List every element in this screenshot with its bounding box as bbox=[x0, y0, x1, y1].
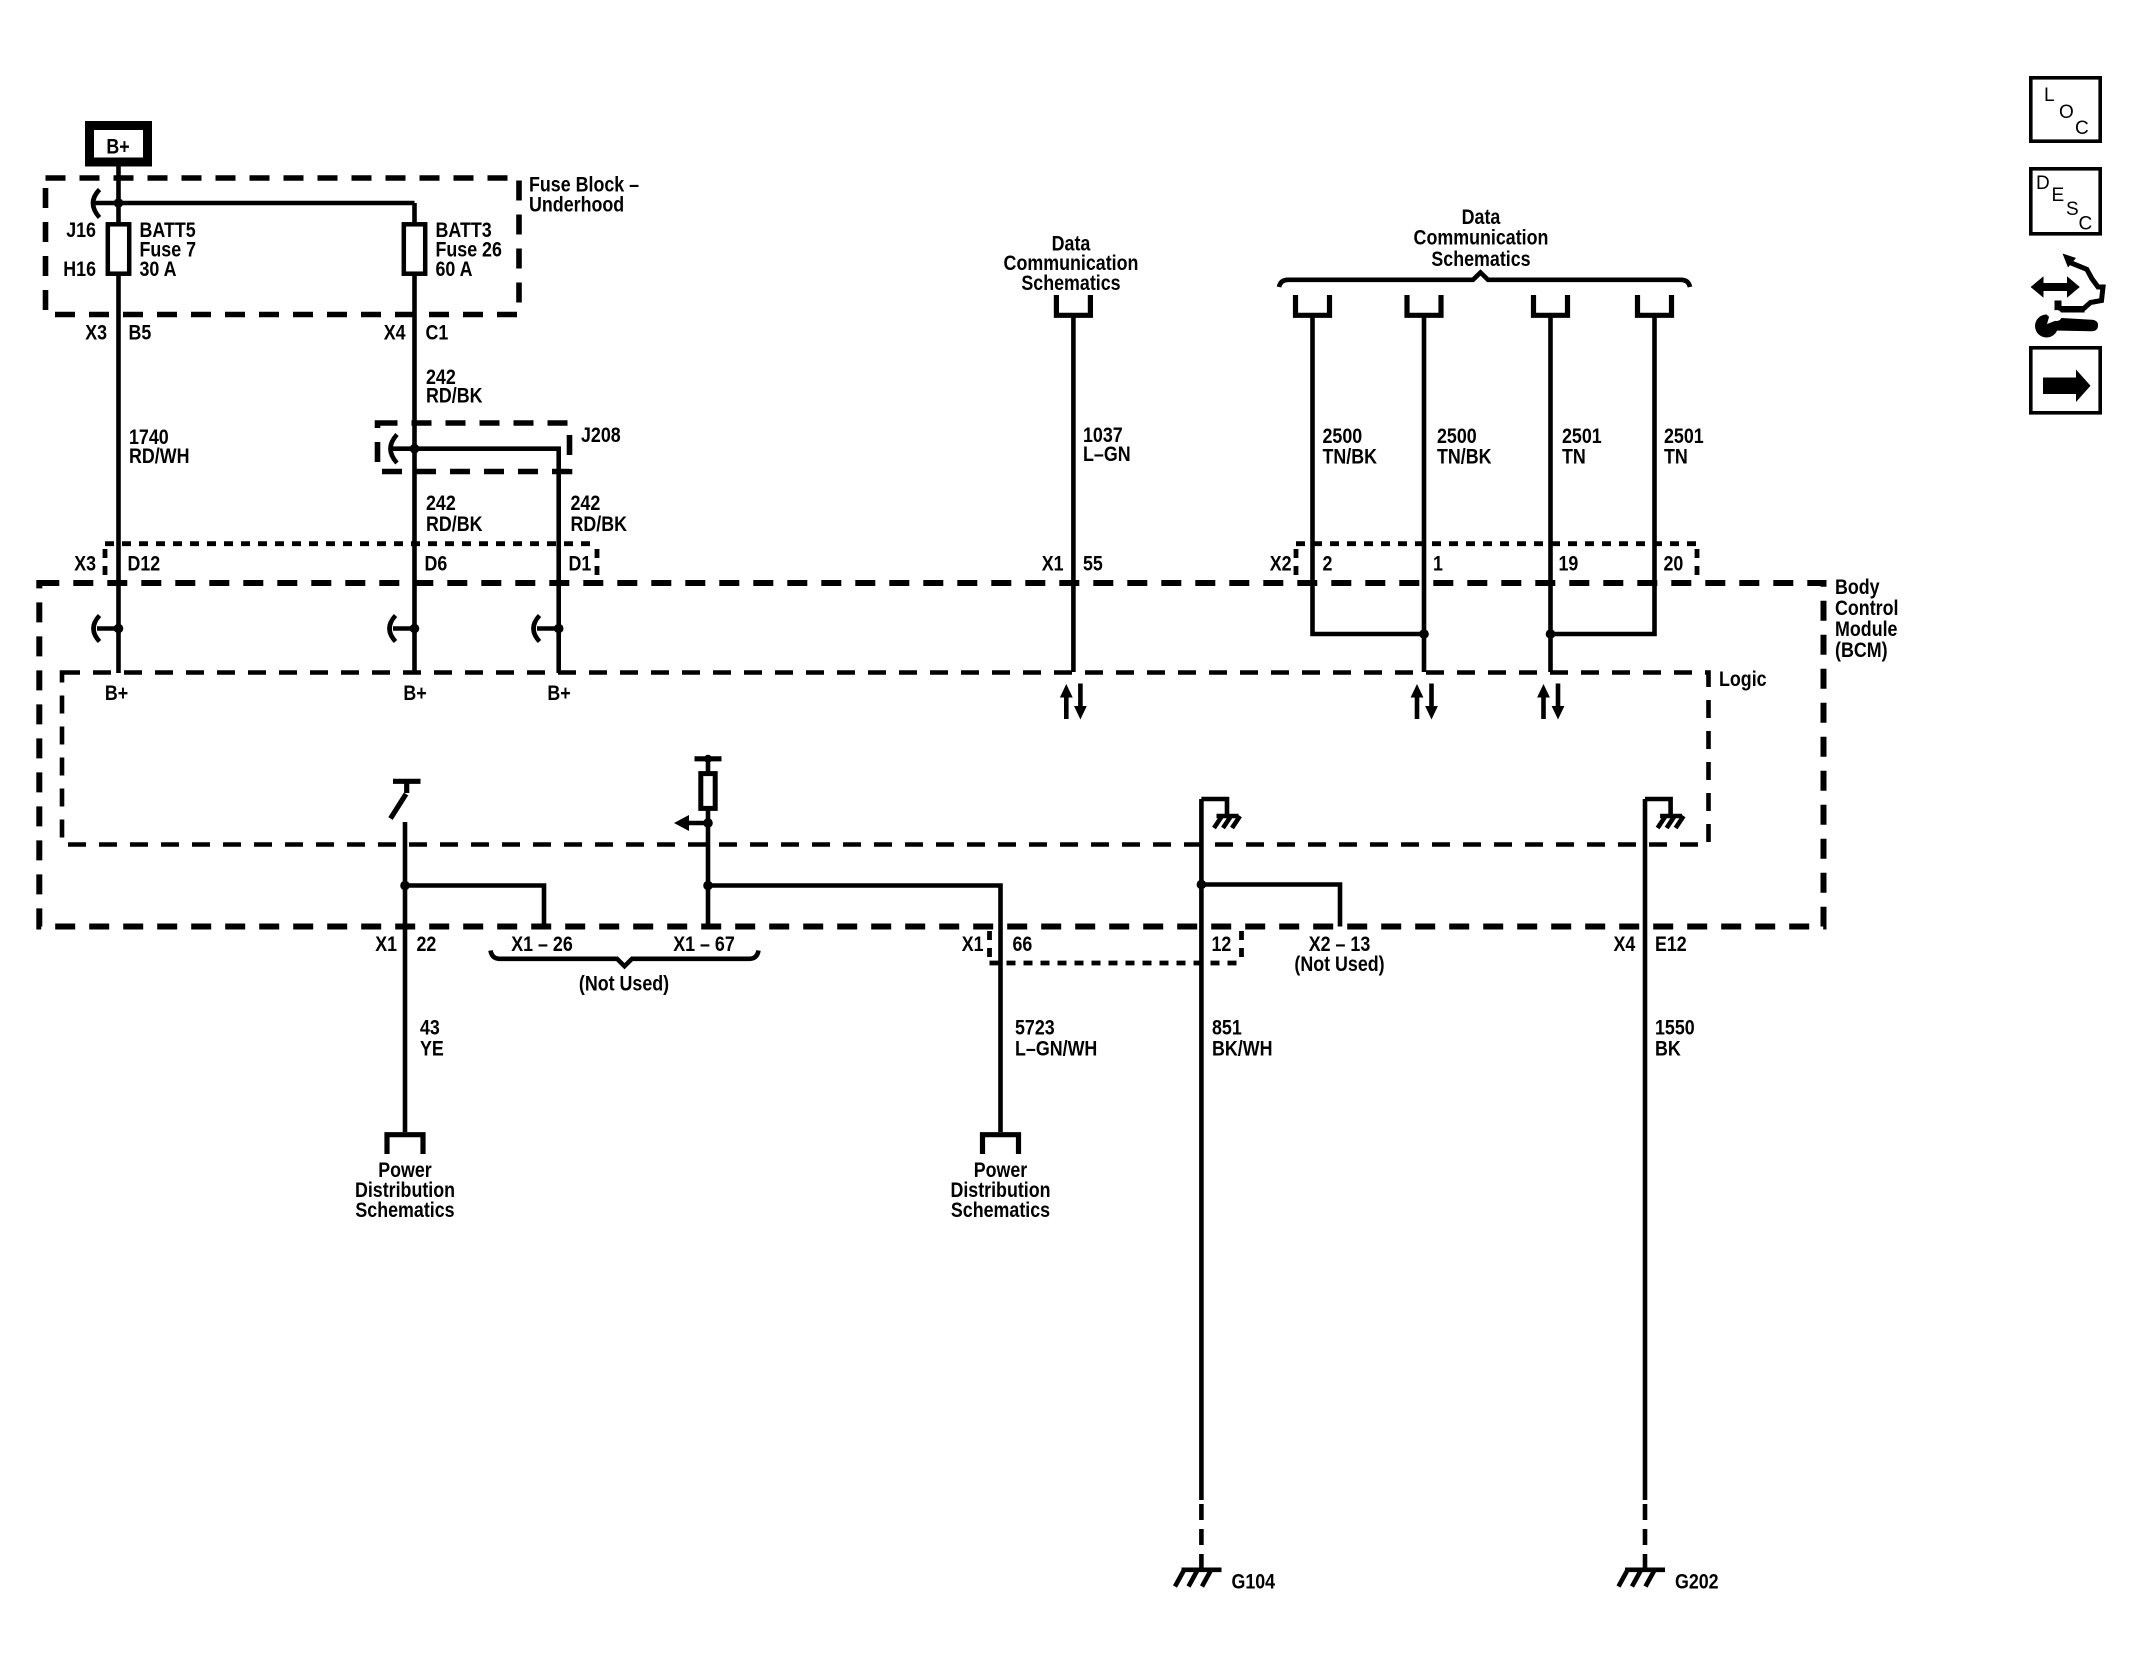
svg-text:B+: B+ bbox=[105, 682, 128, 705]
svg-text:(Not Used): (Not Used) bbox=[1294, 953, 1384, 976]
svg-text:X4: X4 bbox=[384, 322, 406, 345]
svg-text:BK/WH: BK/WH bbox=[1212, 1038, 1273, 1061]
internal switch contact bbox=[391, 781, 421, 818]
fuse BATT3 value label bbox=[436, 219, 502, 281]
svg-text:G202: G202 bbox=[1675, 1571, 1719, 1594]
svg-text:B5: B5 bbox=[129, 322, 152, 345]
svg-text:TN/BK: TN/BK bbox=[1437, 446, 1492, 469]
svg-text:C: C bbox=[2075, 118, 2089, 139]
pin label X3 connector bbox=[85, 322, 107, 345]
connector symbol at data bus wire top bbox=[1534, 295, 1568, 315]
pin label E12 bbox=[1655, 933, 1687, 956]
connector grommet J16 bbox=[93, 190, 100, 218]
svg-text:B+: B+ bbox=[106, 136, 129, 159]
sidebar icon arrow box bbox=[2031, 348, 2100, 413]
splice label J208 bbox=[581, 424, 621, 447]
connector grommet B+ entry bbox=[94, 616, 124, 642]
resistor pull-up bbox=[701, 774, 715, 809]
Body Control Module BCM dashed box bbox=[39, 583, 1823, 927]
svg-text:22: 22 bbox=[417, 933, 437, 956]
fuse BATT3 Fuse 26 60 A bbox=[404, 224, 425, 273]
sidebar icon LOC bbox=[2031, 78, 2100, 141]
pin label X1 at 66 bbox=[962, 933, 984, 956]
node label B+ first bbox=[105, 682, 128, 705]
wire 2501 TN pin 20 bbox=[1551, 314, 1655, 635]
wire label 1037 L-GN bbox=[1083, 424, 1131, 466]
wire 2500 TN/BK pin 2 bbox=[1313, 314, 1425, 635]
wire 1740 RD/WH from B+ through fuse BATT5 to BCM pin D12 bbox=[116, 166, 121, 673]
wire label 43 YE bbox=[420, 1017, 444, 1061]
junction node ground branch bbox=[1197, 880, 1207, 890]
svg-text:L–GN/WH: L–GN/WH bbox=[1015, 1038, 1097, 1061]
junction node high-speed bus bbox=[1546, 629, 1556, 639]
bidirectional signal arrows at pin 55 bbox=[1060, 684, 1087, 720]
BCM label bbox=[1835, 576, 1899, 662]
fuse block underhood dashed box bbox=[46, 178, 520, 315]
pin label H16 bbox=[63, 258, 96, 281]
connector grommet B+ entry bbox=[390, 616, 420, 642]
junction node resistor branch bbox=[703, 881, 713, 891]
svg-text:X1: X1 bbox=[375, 933, 397, 956]
wire 1550 BK to ground G202 bbox=[1643, 799, 1648, 1500]
internal ground symbol right bbox=[1645, 799, 1684, 828]
wire label 242 RD/BK upper bbox=[426, 366, 483, 408]
junction node switch branch bbox=[400, 881, 410, 891]
fuse BATT5 Fuse 7 30 A bbox=[108, 224, 129, 273]
off-page reference Power Distribution Schematics right bbox=[950, 1159, 1050, 1222]
junction node at J208 bbox=[410, 444, 420, 454]
svg-text:X2: X2 bbox=[1270, 553, 1292, 576]
pin label X1 bbox=[1042, 553, 1064, 576]
wire dashed tail to G202 bbox=[1643, 1504, 1648, 1570]
svg-text:G104: G104 bbox=[1232, 1571, 1276, 1594]
wire label 242 RD/BK right bbox=[571, 492, 628, 536]
svg-text:Logic: Logic bbox=[1719, 668, 1767, 691]
junction node at B+ feed bbox=[114, 198, 124, 208]
svg-text:X1 – 67: X1 – 67 bbox=[673, 933, 735, 956]
wire from switch to pin 22 bbox=[403, 822, 408, 1132]
connector grommet B+ entry bbox=[534, 616, 564, 642]
svg-text:242: 242 bbox=[571, 492, 601, 515]
off-page reference Power Distribution Schematics left bbox=[355, 1159, 455, 1222]
wire 242 RD/BK from fuse BATT3 down bbox=[412, 203, 417, 673]
pin label D1 bbox=[569, 553, 592, 576]
connector symbol at data bus wire top bbox=[1296, 295, 1330, 315]
svg-text:(Not Used): (Not Used) bbox=[579, 973, 669, 996]
svg-text:H16: H16 bbox=[63, 258, 96, 281]
connector symbol to power distribution left bbox=[387, 1135, 423, 1154]
svg-text:J208: J208 bbox=[581, 424, 621, 447]
pin label 20 bbox=[1664, 553, 1684, 576]
ground G202 bbox=[1619, 1570, 1666, 1587]
svg-text:5723: 5723 bbox=[1015, 1017, 1055, 1040]
svg-text:E12: E12 bbox=[1655, 933, 1687, 956]
pin label X1-26 bbox=[511, 933, 573, 956]
wire label 5723 L-GN/WH bbox=[1015, 1017, 1097, 1061]
pin label 2 bbox=[1323, 553, 1333, 576]
pin label D6 bbox=[425, 553, 448, 576]
pin label 55 bbox=[1083, 553, 1103, 576]
connector face row X3 D12 D6 D1 bbox=[105, 544, 597, 578]
connector symbol at data bus wire top bbox=[1638, 295, 1672, 315]
svg-text:Schematics: Schematics bbox=[355, 1199, 454, 1222]
ground label G104 bbox=[1232, 1571, 1276, 1594]
power symbol B+ box bbox=[90, 126, 148, 163]
svg-text:60 A: 60 A bbox=[436, 258, 473, 281]
svg-text:S: S bbox=[2066, 199, 2079, 220]
svg-text:Schematics: Schematics bbox=[1431, 248, 1530, 271]
wire label 2500 TN/BK first bbox=[1323, 425, 1378, 469]
svg-text:X4: X4 bbox=[1614, 933, 1636, 956]
svg-text:242: 242 bbox=[426, 492, 456, 515]
svg-text:B+: B+ bbox=[403, 682, 426, 705]
wire dashed tail to G104 bbox=[1199, 1504, 1204, 1570]
svg-text:X1: X1 bbox=[962, 933, 984, 956]
sidebar icon diagnostic wrench arrow bbox=[2031, 254, 2103, 338]
wire label 1740 RD/WH bbox=[129, 426, 190, 468]
svg-text:RD/BK: RD/BK bbox=[426, 513, 483, 536]
connector grommet at J208 bbox=[391, 435, 398, 464]
fuse block label bbox=[529, 174, 639, 217]
svg-text:1550: 1550 bbox=[1655, 1017, 1695, 1040]
connector face row 66 to 12 bbox=[990, 931, 1242, 963]
connector symbol at data bus wire top bbox=[1407, 295, 1441, 315]
svg-text:D: D bbox=[2036, 173, 2050, 194]
svg-text:55: 55 bbox=[1083, 553, 1103, 576]
svg-text:O: O bbox=[2059, 102, 2074, 123]
wire branch to pin X1-26 bbox=[405, 886, 544, 927]
svg-text:43: 43 bbox=[420, 1017, 440, 1040]
wire label 1550 BK bbox=[1655, 1017, 1695, 1061]
Logic dashed box bbox=[62, 673, 1709, 845]
svg-text:C: C bbox=[2079, 214, 2093, 235]
wire bus bar from B+ to fuse BATT3 bbox=[94, 201, 415, 206]
svg-text:Body: Body bbox=[1835, 576, 1880, 599]
svg-text:Schematics: Schematics bbox=[951, 1199, 1050, 1222]
svg-text:X1 – 26: X1 – 26 bbox=[511, 933, 573, 956]
svg-text:TN: TN bbox=[1562, 446, 1586, 469]
svg-text:L–GN: L–GN bbox=[1083, 443, 1131, 466]
pin label X4 at E12 bbox=[1614, 933, 1636, 956]
pin label X3 bbox=[74, 553, 96, 576]
svg-text:851: 851 bbox=[1212, 1017, 1242, 1040]
internal supply bar bbox=[695, 755, 722, 772]
svg-text:(BCM): (BCM) bbox=[1835, 639, 1888, 662]
signal arrow pointing left bbox=[674, 815, 708, 831]
svg-text:1: 1 bbox=[1433, 553, 1443, 576]
junction node low-speed bus bbox=[1419, 629, 1429, 639]
wire branch to pin X2-13 bbox=[1201, 885, 1340, 927]
svg-text:RD/BK: RD/BK bbox=[426, 385, 483, 408]
svg-text:X1: X1 bbox=[1042, 553, 1064, 576]
pin label 66 bbox=[1013, 933, 1033, 956]
wire label 2501 TN first bbox=[1562, 425, 1602, 469]
svg-text:Control: Control bbox=[1835, 597, 1899, 620]
svg-text:X3: X3 bbox=[85, 322, 107, 345]
svg-text:20: 20 bbox=[1664, 553, 1684, 576]
svg-text:D12: D12 bbox=[128, 553, 161, 576]
svg-text:19: 19 bbox=[1559, 553, 1579, 576]
svg-text:12: 12 bbox=[1212, 933, 1232, 956]
sidebar icon DESC bbox=[2031, 169, 2100, 235]
pin label X4 connector bbox=[384, 322, 406, 345]
svg-text:L: L bbox=[2044, 85, 2055, 106]
connector symbol to power distribution right bbox=[983, 1135, 1019, 1154]
svg-text:30 A: 30 A bbox=[140, 258, 177, 281]
internal ground symbol left bbox=[1201, 799, 1240, 828]
splice pack J208 dashed box bbox=[378, 423, 570, 472]
bidirectional signal arrows at low-speed bus bbox=[1411, 684, 1438, 720]
wire branch to pin X1-66 bbox=[708, 886, 1001, 1133]
connector symbol at 1037 wire top bbox=[1056, 295, 1090, 315]
node label B+ second bbox=[403, 682, 426, 705]
pin label C1 bbox=[426, 322, 449, 345]
pin label X1-67 bbox=[673, 933, 735, 956]
wire splice branch 242 RD/BK to pin D1 bbox=[392, 449, 559, 673]
svg-text:X3: X3 bbox=[74, 553, 96, 576]
brace not used pins bbox=[491, 951, 759, 967]
svg-text:D6: D6 bbox=[425, 553, 448, 576]
pin label B5 bbox=[129, 322, 152, 345]
pin label D12 bbox=[128, 553, 161, 576]
svg-text:B+: B+ bbox=[547, 682, 570, 705]
wire label 242 RD/BK left bbox=[426, 492, 483, 536]
svg-text:D1: D1 bbox=[569, 553, 592, 576]
wire label 851 BK/WH bbox=[1212, 1017, 1273, 1061]
ground label G202 bbox=[1675, 1571, 1719, 1594]
pin label 22 bbox=[417, 933, 437, 956]
svg-text:E: E bbox=[2052, 185, 2065, 206]
svg-text:Communication: Communication bbox=[1414, 227, 1549, 250]
connector face row X2 pins 2 1 19 20 bbox=[1296, 544, 1697, 578]
bidirectional signal arrows at high-speed bus bbox=[1537, 684, 1564, 720]
label not used left bbox=[579, 973, 669, 996]
brace over data bus connectors bbox=[1279, 273, 1690, 288]
pin label X1 at 22 bbox=[375, 933, 397, 956]
svg-text:Underhood: Underhood bbox=[529, 194, 624, 217]
svg-text:YE: YE bbox=[420, 1038, 444, 1061]
pin label X2 bbox=[1270, 553, 1292, 576]
svg-text:2: 2 bbox=[1323, 553, 1333, 576]
wire 2500 TN/BK pin 1 bbox=[1422, 314, 1427, 673]
wire 2501 TN pin 19 bbox=[1548, 314, 1553, 673]
svg-text:RD/BK: RD/BK bbox=[571, 513, 628, 536]
ground G104 bbox=[1175, 1570, 1222, 1587]
wire label 2500 TN/BK second bbox=[1437, 425, 1492, 469]
wire 1037 L-GN bbox=[1071, 314, 1076, 673]
pin label X2-13 bbox=[1309, 933, 1371, 956]
wire label 2501 TN second bbox=[1664, 425, 1704, 469]
wire from resistor to pin X1-67 bbox=[706, 809, 711, 927]
off-page reference Data Communication Schematics right bbox=[1414, 206, 1549, 271]
svg-text:66: 66 bbox=[1013, 933, 1033, 956]
svg-text:C1: C1 bbox=[426, 322, 449, 345]
Logic label bbox=[1719, 668, 1767, 691]
wire 851 BK/WH to ground G104 bbox=[1199, 799, 1204, 1500]
pin label 12 bbox=[1212, 933, 1232, 956]
svg-text:J16: J16 bbox=[66, 219, 96, 242]
fuse BATT5 value label bbox=[140, 219, 197, 281]
junction node at resistor output bbox=[703, 818, 713, 828]
label not used right bbox=[1294, 953, 1384, 976]
node label B+ third bbox=[547, 682, 570, 705]
off-page reference Data Communication Schematics left bbox=[1004, 233, 1139, 296]
svg-text:TN/BK: TN/BK bbox=[1323, 446, 1378, 469]
svg-text:RD/WH: RD/WH bbox=[129, 445, 190, 468]
svg-text:Module: Module bbox=[1835, 618, 1898, 641]
svg-text:Schematics: Schematics bbox=[1021, 272, 1120, 295]
svg-text:TN: TN bbox=[1664, 446, 1688, 469]
pin label 1 bbox=[1433, 553, 1443, 576]
svg-text:BK: BK bbox=[1655, 1038, 1681, 1061]
pin label 19 bbox=[1559, 553, 1579, 576]
pin label J16 bbox=[66, 219, 96, 242]
